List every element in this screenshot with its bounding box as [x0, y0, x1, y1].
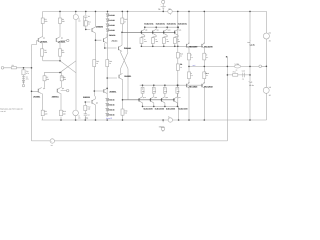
- svg-text:bias12: bias12: [106, 117, 112, 120]
- svg-text:2N5401: 2N5401: [109, 34, 116, 37]
- svg-text:out: out: [193, 64, 196, 67]
- svg-text:2SC5200: 2SC5200: [204, 45, 214, 48]
- svg-text:2SA1943: 2SA1943: [189, 85, 199, 88]
- svg-text:1N4148: 1N4148: [108, 109, 114, 112]
- svg-text:1N4148: 1N4148: [108, 114, 114, 117]
- svg-text:Vp: Vp: [169, 7, 171, 10]
- svg-text:+: +: [51, 141, 52, 143]
- svg-text:2N5551: 2N5551: [33, 95, 41, 98]
- svg-text:2N5401: 2N5401: [40, 41, 48, 44]
- svg-text:MJE15030: MJE15030: [166, 107, 175, 110]
- svg-text:L2 2u: L2 2u: [235, 63, 239, 66]
- svg-text:35: 35: [158, 8, 160, 11]
- svg-text:Blameless amp 50W class AB: Blameless amp 50W class AB: [0, 108, 23, 111]
- svg-text:35: 35: [269, 94, 271, 97]
- svg-text:1N4148: 1N4148: [108, 14, 114, 17]
- svg-text:2N5551: 2N5551: [52, 95, 60, 98]
- svg-text:+: +: [160, 4, 161, 6]
- svg-text:1N4148: 1N4148: [108, 19, 114, 22]
- svg-text:SINE(0: SINE(0: [159, 126, 165, 129]
- svg-text:MJE15031: MJE15031: [178, 22, 187, 25]
- svg-text:MJE15030: MJE15030: [155, 107, 164, 110]
- svg-text:MJE15031: MJE15031: [167, 22, 176, 25]
- svg-text:MJE15031: MJE15031: [156, 22, 165, 25]
- svg-text:2N5551: 2N5551: [83, 96, 91, 99]
- svg-text:V3: V3: [269, 86, 271, 89]
- svg-text:35: 35: [269, 40, 271, 43]
- svg-text:2N5086: 2N5086: [96, 25, 104, 28]
- svg-text:MJE15030: MJE15030: [144, 107, 153, 110]
- svg-text:1N4148: 1N4148: [108, 24, 114, 27]
- svg-text:2N5401: 2N5401: [112, 40, 118, 43]
- svg-text:2N5401: 2N5401: [58, 41, 66, 44]
- svg-text:2N5551: 2N5551: [109, 90, 117, 93]
- svg-text:2SC5200: 2SC5200: [189, 45, 199, 48]
- svg-text:1N4148: 1N4148: [108, 29, 114, 32]
- svg-text:MJE15031: MJE15031: [144, 22, 153, 25]
- svg-text:2N5551: 2N5551: [124, 75, 132, 78]
- svg-text:L3 2u: L3 2u: [249, 84, 254, 87]
- svg-text:V2: V2: [269, 32, 271, 35]
- svg-text:L1 2u: L1 2u: [250, 44, 256, 47]
- svg-text:1N4148: 1N4148: [108, 99, 114, 102]
- svg-text:2N5551: 2N5551: [124, 47, 132, 50]
- svg-text:2SA1943: 2SA1943: [204, 85, 214, 88]
- svg-text:MJE15030: MJE15030: [178, 107, 187, 110]
- svg-text:1N4148: 1N4148: [108, 104, 114, 107]
